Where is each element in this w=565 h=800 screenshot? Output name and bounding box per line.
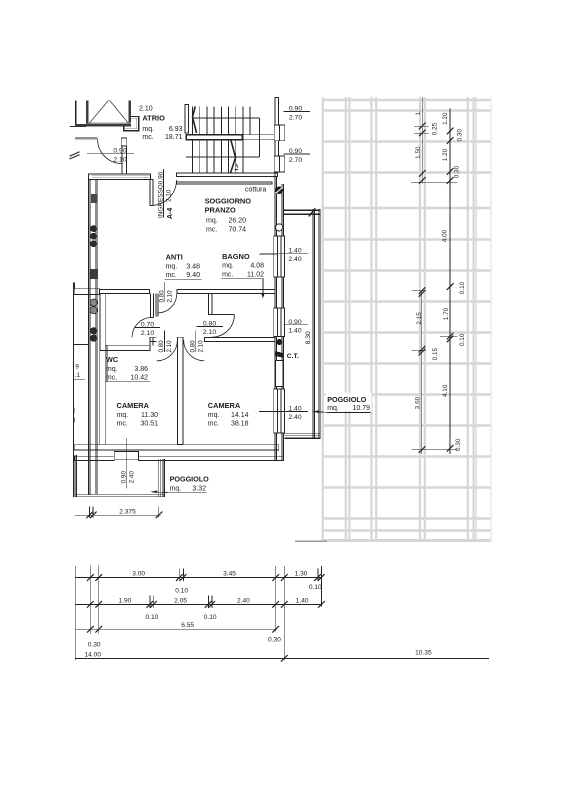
dimension window bagno 0.90/1.40 (284, 319, 309, 335)
cottura gas symbol (275, 187, 283, 195)
stair window lower 0.90 (274, 156, 284, 172)
ingresso door arc (153, 180, 177, 205)
svg-text:14.00: 14.00 (85, 651, 102, 658)
svg-text:mq.: mq. (170, 486, 182, 493)
svg-text:POGGIOLO: POGGIOLO (170, 474, 210, 483)
column hatch block in west wall (91, 269, 98, 279)
dimension door atrio 0.90/2.10 (87, 148, 134, 164)
duct dots in west wall (upper) (90, 225, 97, 247)
WALLS (70, 98, 321, 498)
stairwell south / soggiorno north wall (thick) (177, 173, 278, 184)
wc south wall / camera1 north (105, 345, 150, 350)
poggiolo door threshold (114, 451, 138, 459)
svg-text:2.10: 2.10 (166, 189, 173, 202)
dimension window camera2 1.40/2.40 (259, 405, 308, 421)
east exterior wall (double pair) (275, 173, 284, 461)
svg-text:3.60: 3.60 (415, 396, 422, 409)
svg-text:0.10: 0.10 (204, 614, 217, 621)
svg-text:1.30: 1.30 (295, 570, 308, 577)
room label POGGIOLO (small) (151, 474, 209, 493)
atrio south wall segment (75, 138, 98, 140)
camera1 door arc (157, 340, 178, 361)
svg-text:0.30: 0.30 (455, 438, 462, 451)
svg-text:0.25: 0.25 (431, 122, 438, 135)
svg-text:0.30: 0.30 (456, 129, 463, 142)
right dim rotated labels (415, 110, 467, 451)
svg-text:6.93: 6.93 (169, 126, 183, 133)
neighbour label fragments (73, 364, 85, 424)
svg-text:0.10: 0.10 (145, 614, 158, 621)
svg-text:1.50: 1.50 (415, 146, 422, 159)
svg-text:10.42: 10.42 (130, 375, 148, 382)
svg-text:|: | (73, 407, 75, 414)
svg-text:SOGGIORNO: SOGGIORNO (205, 197, 252, 206)
wall stub between atrio landing and apartment (122, 146, 127, 174)
dimension stair window 0.90/2.70 upper (284, 106, 311, 122)
svg-text:4.10: 4.10 (442, 384, 449, 397)
door jamb stub atrio (121, 138, 127, 146)
svg-text:mc.: mc. (208, 420, 219, 427)
svg-text:mq.: mq. (106, 366, 118, 373)
svg-text:mq.: mq. (206, 217, 218, 224)
svg-text:2.375: 2.375 (119, 508, 136, 515)
dimension stair window 0.90/2.70 lower (284, 148, 311, 164)
svg-text:POGGIOLO: POGGIOLO (327, 395, 367, 404)
svg-text:2.40: 2.40 (237, 597, 250, 604)
svg-text:30.51: 30.51 (140, 421, 158, 428)
svg-text:mc.: mc. (206, 226, 217, 233)
stair window upper 0.90 (274, 125, 284, 141)
bottom dim line 3 (6.55) (75, 622, 281, 648)
svg-text:10.35: 10.35 (415, 650, 432, 657)
svg-text:18.71: 18.71 (165, 134, 183, 141)
svg-text:PRANZO: PRANZO (205, 205, 236, 214)
wc door jog wall (150, 337, 157, 350)
svg-text:3.00: 3.00 (132, 570, 145, 577)
hatched circles in west wall (90, 299, 97, 314)
svg-text:0.10: 0.10 (309, 584, 322, 591)
svg-text:1.70: 1.70 (443, 307, 450, 320)
bottom dim line 2 (1.90 / 2.05 / 2.40 / 1.40) (75, 595, 324, 621)
rotated dim camera1 door 0.80/2.10 (158, 331, 173, 353)
svg-text:1.20: 1.20 (442, 148, 449, 161)
dimension window soggiorno 1.40/2.40 (260, 248, 308, 264)
elevator shaft (86, 100, 131, 126)
grid bottom edge stub (295, 540, 327, 542)
svg-text:38.18: 38.18 (231, 420, 249, 427)
west exterior wall (4-line) (88, 180, 97, 495)
big balcony north parapet (284, 209, 321, 214)
svg-text:8.30: 8.30 (305, 331, 312, 344)
svg-text:0.90: 0.90 (121, 471, 128, 484)
svg-text:3.86: 3.86 (134, 366, 148, 373)
camera2 window 1.40 (274, 389, 285, 433)
svg-text:2.10: 2.10 (166, 340, 173, 353)
anti door arc (0.80 north) (157, 294, 176, 313)
right dim chain A (upper) (414, 97, 429, 184)
big balcony south parapet (285, 434, 321, 439)
svg-text:mc.: mc. (166, 272, 177, 279)
wall below elevator (atrio north band) (75, 124, 86, 127)
atrio east wall with notch (124, 116, 139, 130)
DIMS (75, 97, 490, 662)
svg-text:2.10: 2.10 (203, 329, 216, 336)
svg-text:ANTI: ANTI (166, 253, 183, 262)
door arc atrio 0.90 (98, 139, 122, 163)
ingresso rotated label (158, 169, 173, 218)
svg-text:2.10: 2.10 (141, 330, 154, 337)
small poggiolo south parapet (75, 495, 164, 497)
svg-text:3.45: 3.45 (223, 570, 236, 577)
right dim chain B (411, 109, 458, 454)
rotated dim camera2 door 0.80/2.10 (190, 331, 205, 353)
svg-text:1.: 1. (415, 110, 422, 116)
room label WC with leader (105, 346, 150, 382)
camera2 window niche (276, 361, 283, 387)
bottom dim extension lines (75, 566, 321, 661)
landing lines to right wall (242, 135, 276, 140)
svg-text:0.30: 0.30 (268, 636, 281, 643)
anti north wall east segment (177, 289, 275, 293)
solid dots in west wall (lower) (90, 327, 97, 342)
svg-text:mq.: mq. (166, 263, 178, 270)
anti/bagno divider wall (209, 294, 212, 315)
svg-text:): ) (73, 417, 75, 424)
wc east wall stub (150, 294, 157, 318)
big balcony east parapet (313, 209, 320, 438)
GRID (322, 97, 491, 541)
small poggiolo west parapet (75, 455, 76, 497)
svg-text:mq.: mq. (117, 412, 129, 419)
svg-text:1.40: 1.40 (288, 327, 301, 334)
svg-text:CAMERA: CAMERA (208, 401, 241, 410)
svg-text:A-4: A-4 (167, 208, 174, 219)
svg-text:11.02: 11.02 (247, 271, 264, 278)
svg-text:11.30: 11.30 (141, 412, 158, 419)
svg-text:1.20: 1.20 (442, 112, 449, 125)
svg-text:mq.: mq. (327, 405, 339, 412)
svg-text:INGRESSO0.90: INGRESSO0.90 (158, 171, 165, 218)
bagno door leaf + arc (212, 315, 235, 338)
terrace tile grid: vertical joints (323, 97, 491, 541)
stair landing outline (186, 118, 260, 157)
svg-text:1.90: 1.90 (118, 597, 131, 604)
svg-text:2.10: 2.10 (139, 106, 153, 113)
svg-text:2.70: 2.70 (289, 114, 302, 121)
svg-text:9.40: 9.40 (186, 272, 200, 279)
terrace tile grid: horizontal joints (322, 100, 491, 541)
camera2 door arc (184, 340, 205, 361)
svg-text:mq.: mq. (222, 263, 234, 270)
C.T. black marker (275, 351, 283, 357)
bagno window 0.90 (274, 308, 285, 337)
stair flight break marks (193, 107, 239, 174)
svg-text:10.79: 10.79 (352, 405, 370, 412)
room label CAMERA (right) (208, 401, 249, 427)
svg-text:2.10: 2.10 (198, 340, 205, 353)
neighbour wall stub left edge (73, 344, 88, 346)
knob circle on east wall (276, 224, 283, 231)
bottom dim line 4 (14.00 / 10.35) (75, 650, 489, 662)
svg-text:mc.: mc. (222, 271, 233, 278)
svg-text:4.00: 4.00 (441, 229, 448, 242)
svg-text:2.10: 2.10 (167, 290, 174, 303)
dimension bagno door 0.80/2.10 (196, 320, 223, 336)
anti north wall end tick (73, 282, 75, 288)
wc west wall (100, 294, 105, 351)
rotated dim poggiolo door 0.90/2.40 (121, 438, 136, 489)
svg-text:0.10: 0.10 (459, 333, 466, 346)
svg-text:mc.: mc. (117, 421, 128, 428)
svg-text:.1: .1 (75, 372, 81, 379)
svg-text:9: 9 (75, 364, 79, 371)
svg-text:2.15: 2.15 (416, 312, 423, 325)
room label ATRIO (142, 114, 182, 141)
svg-text:2.10: 2.10 (113, 156, 126, 163)
apartment south wall (thick band) (74, 445, 284, 461)
svg-text:mq.: mq. (142, 126, 154, 133)
svg-text:mq.: mq. (208, 412, 220, 419)
svg-text:0.30: 0.30 (88, 642, 101, 649)
svg-text:0.80: 0.80 (158, 340, 165, 353)
wc door arc (0.70) (132, 317, 152, 337)
svg-text:BAGNO: BAGNO (222, 252, 250, 261)
dimension wc door 0.70/2.10 (135, 322, 161, 338)
room label ANTI (165, 253, 202, 280)
svg-text:C.T.: C.T. (287, 353, 299, 360)
dot on east wall near C.T. (276, 339, 282, 345)
bottom dim line 1 (3.00 / 3.45 / 1.30) (75, 569, 324, 595)
stair treads (193, 107, 251, 174)
svg-text:0.80: 0.80 (159, 290, 166, 303)
corridor north wall (west part) (88, 174, 150, 180)
svg-text:2.40: 2.40 (129, 471, 136, 484)
svg-text:2.70: 2.70 (289, 157, 302, 164)
svg-text:WC: WC (106, 355, 119, 364)
rotated dim anti door 0.80/2.10 (159, 282, 174, 303)
svg-text:ATRIO: ATRIO (142, 114, 165, 123)
ingresso door leaf (150, 180, 153, 206)
svg-text:0.80: 0.80 (190, 340, 197, 353)
soggiorno balcony window 1.40 (274, 236, 285, 277)
svg-text:mc.: mc. (142, 134, 153, 141)
wc west wall lower continuation (100, 351, 105, 445)
svg-text:0.15: 0.15 (432, 347, 439, 360)
svg-text:CAMERA: CAMERA (117, 401, 150, 410)
duct hatch block in west wall (91, 194, 97, 203)
svg-text:2.40: 2.40 (288, 414, 301, 421)
svg-text:3.48: 3.48 (186, 263, 200, 270)
stairwell east wall (275, 98, 279, 157)
svg-text:6.55: 6.55 (181, 622, 194, 629)
anti north wall mid segment (99, 289, 149, 293)
room label SOGGIORNO PRANZO (205, 197, 252, 234)
stairwell west wall (185, 105, 188, 134)
svg-text:4.08: 4.08 (250, 263, 264, 270)
neighbour balcony parapet line (far left) (73, 282, 75, 497)
svg-text:2.05: 2.05 (174, 597, 187, 604)
svg-text:70.74: 70.74 (228, 226, 246, 233)
small poggiolo east parapet (159, 459, 165, 497)
wall between cameras (178, 337, 183, 444)
svg-text:cottura: cottura (245, 187, 267, 194)
room label CAMERA (left) (117, 401, 159, 427)
camera2 north wall (204, 338, 275, 342)
svg-text:0.10: 0.10 (459, 281, 466, 294)
svg-text:mc.: mc. (106, 375, 117, 382)
right dim chain A (lower) (412, 287, 427, 454)
svg-text:3.32: 3.32 (192, 486, 206, 493)
room label POGGIOLO (big balcony) (313, 393, 372, 413)
anti north wall west segment (74, 289, 100, 295)
atrio left wall stub + break mark (70, 101, 87, 160)
svg-text:26.20: 26.20 (228, 217, 246, 224)
tick on balcony north parapet (309, 208, 316, 216)
svg-text:0.10: 0.10 (175, 587, 188, 594)
dimension 2.375 poggiolo (75, 506, 163, 518)
svg-text:1.40: 1.40 (296, 597, 309, 604)
stair handrail (186, 135, 242, 140)
room label BAGNO with leader (221, 252, 278, 299)
svg-text:14.14: 14.14 (231, 412, 249, 419)
svg-text:2.40: 2.40 (288, 256, 301, 263)
svg-text:0.30: 0.30 (454, 165, 461, 178)
